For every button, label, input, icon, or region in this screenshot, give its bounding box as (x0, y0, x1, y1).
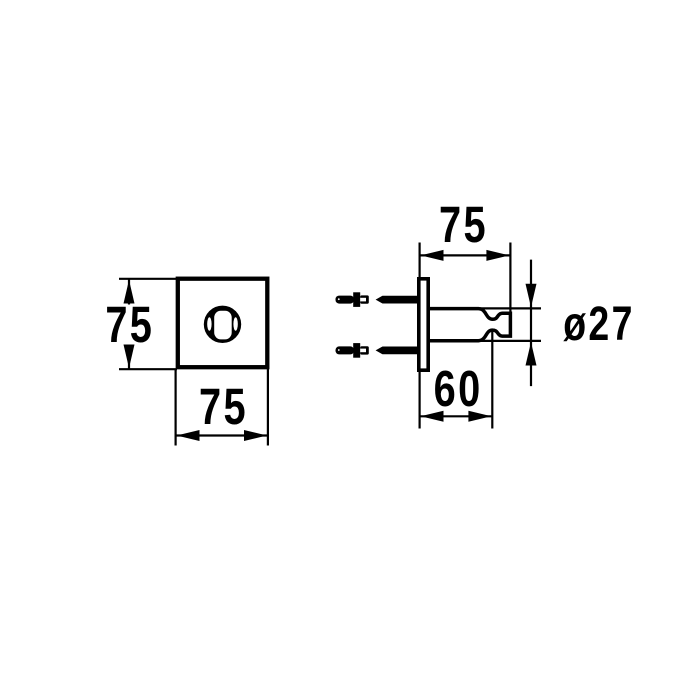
dia27 dim: bottom extension line (480, 340, 541, 342)
left 75 dim: down arrowhead (124, 345, 135, 369)
top screw: plug tip (360, 295, 369, 303)
top screw: plug hole dot (338, 298, 340, 300)
bottom 75 dim: dimension line (176, 434, 268, 436)
bottom 75 dim: right arrowhead (244, 430, 267, 441)
left 75 dim: top extension line (119, 278, 177, 280)
60 dim: left arrowhead (421, 411, 444, 422)
top 75 dim: right arrowhead (486, 250, 509, 261)
bottom screw: plug hole dot (338, 349, 340, 351)
dia27 dim: down arrowhead (526, 284, 537, 307)
svg-text:ø27: ø27 (563, 298, 635, 352)
dia27 dim: dimension line (530, 260, 532, 387)
svg-text:75: 75 (439, 196, 488, 253)
side view: wall plate (419, 279, 428, 370)
dia27 dim: up arrowhead (526, 342, 537, 365)
bottom 75 dim: left arrowhead (177, 430, 200, 441)
svg-text:75: 75 (105, 296, 154, 353)
left 75 dim: label mask (103, 305, 156, 345)
top 75 dim: left arrowhead (421, 250, 444, 261)
left 75 dim: bottom extension line (119, 368, 177, 370)
60 dim: right extension line (491, 331, 493, 429)
bottom 75 dim: right extension line (267, 369, 269, 446)
bottom screw: wall plug body (336, 346, 355, 354)
side view: holder arm outline with groove (428, 309, 510, 341)
left 75 dim: dimension line (128, 279, 130, 369)
dia27 dim: top extension line (480, 307, 541, 309)
top screw: wall plug body (336, 296, 355, 304)
holder opening: inner slot (white capsule) (214, 311, 232, 340)
bottom 75 dim: left extension line (175, 369, 177, 446)
bottom screw: plug tip slot (360, 349, 366, 353)
bottom screw: screw shaft with point (376, 347, 418, 355)
left 75 dim: up arrowhead (124, 280, 135, 304)
bottom screw: plug tip (360, 346, 369, 354)
bottom screw: plug collar (353, 343, 360, 358)
top screw: plug tip slot (360, 298, 366, 302)
top screw: screw shaft with point (376, 296, 418, 304)
60 dim: right arrowhead (468, 411, 491, 422)
svg-text:75: 75 (199, 378, 248, 435)
top 75 dim: left extension line (419, 243, 421, 280)
top 75 dim: right extension line (509, 243, 511, 314)
holder opening: left crescent gap (207, 317, 211, 331)
holder opening: outer ring disc (204, 306, 241, 343)
60 dim: left extension line (419, 370, 421, 429)
top 75 dim: dimension line (420, 254, 510, 256)
top screw: plug collar (353, 292, 360, 307)
60 dim: dimension line (420, 415, 493, 417)
holder opening: right crescent gap (233, 317, 237, 331)
front view: square face plate (178, 279, 267, 368)
svg-text:60: 60 (434, 360, 483, 417)
